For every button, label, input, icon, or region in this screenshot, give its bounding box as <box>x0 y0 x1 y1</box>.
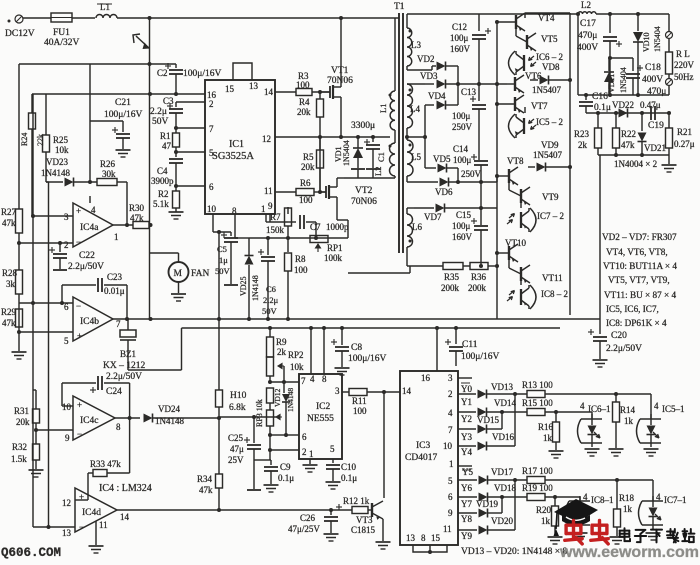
svg-text:−: − <box>76 237 81 247</box>
svg-text:3: 3 <box>448 373 453 383</box>
svg-text:1N5404: 1N5404 <box>653 26 662 52</box>
label C19 <box>648 121 664 131</box>
svg-text:1k: 1k <box>543 433 553 443</box>
wire VT1 source down to primary row <box>340 101 342 137</box>
svg-text:IC2: IC2 <box>316 402 331 412</box>
svg-text:13: 13 <box>406 533 416 543</box>
capacitor C6 2.2u 50V <box>258 238 275 319</box>
label L3 <box>411 40 421 50</box>
resistor R18 1k <box>610 480 625 544</box>
svg-text:IC5, IC6, IC7,: IC5, IC6, IC7, <box>606 304 659 314</box>
svg-text:R11: R11 <box>352 396 367 406</box>
svg-text:100μ: 100μ <box>453 155 472 165</box>
svg-text:2: 2 <box>64 240 69 250</box>
label IC2 NE555 <box>307 402 334 424</box>
supply notch to IC1 pins 15 13 <box>233 63 252 80</box>
watermark site glyphs dian zi xia zai zhan <box>620 528 695 542</box>
label C13 100u 250V <box>452 87 477 132</box>
wire pin1 down, pin9 down <box>266 214 270 222</box>
svg-text:C9: C9 <box>280 462 291 472</box>
diode VD7 <box>414 204 497 213</box>
label RP1 100k <box>324 243 343 263</box>
svg-text:DC12V: DC12V <box>5 29 35 39</box>
svg-text:14: 14 <box>402 386 412 396</box>
svg-text:VD9: VD9 <box>541 140 559 150</box>
label VD10 1N5404 vertical <box>642 26 662 52</box>
svg-text:VT8: VT8 <box>507 156 524 166</box>
svg-text:9: 9 <box>65 433 70 443</box>
label C11 100u/16V <box>461 340 499 362</box>
label VD6 <box>435 187 453 197</box>
label VD19 <box>476 499 498 509</box>
resistor R8 100 <box>285 238 292 319</box>
svg-text:6: 6 <box>448 492 453 502</box>
wire pin2 diode VD13 <box>458 390 527 399</box>
svg-text:1N5407: 1N5407 <box>533 150 562 160</box>
load RL 220V 50Hz <box>666 39 673 78</box>
svg-text:1N4148: 1N4148 <box>41 168 70 178</box>
svg-text:10k: 10k <box>55 145 69 155</box>
svg-text:5: 5 <box>64 336 69 346</box>
svg-text:−: − <box>76 301 81 311</box>
label VD3 <box>420 71 438 81</box>
capacitor C16 0.1u <box>579 95 593 113</box>
svg-text:L2: L2 <box>581 0 591 10</box>
wire pin10 diode VD16 <box>458 394 515 451</box>
label R27 47k <box>1 207 17 228</box>
label VT9 <box>542 192 559 202</box>
svg-text:400V: 400V <box>642 75 663 85</box>
wire L2 to output terminal <box>596 12 669 31</box>
svg-text:H10: H10 <box>230 391 247 401</box>
svg-text:1N5404: 1N5404 <box>619 67 628 93</box>
diode VD9 <box>528 163 570 172</box>
svg-text:C16: C16 <box>592 92 608 102</box>
svg-text:20k: 20k <box>301 162 315 172</box>
label R4 20k <box>297 97 311 117</box>
capacitor C14 100u 250V <box>471 154 488 182</box>
svg-text:+: + <box>77 331 82 341</box>
label VD21 <box>644 143 666 153</box>
diode VD1 1N5404 vertical <box>351 137 365 169</box>
svg-text:1: 1 <box>449 459 454 469</box>
svg-text:R9: R9 <box>276 337 287 347</box>
label VT6 <box>525 71 542 81</box>
wire pin11 diode VD20 <box>458 480 515 535</box>
svg-text:C8: C8 <box>351 343 362 353</box>
optocoupler IC5-2 <box>509 107 537 138</box>
capacitor C13 100u 250V <box>470 84 486 160</box>
label RL 220V 50Hz <box>674 49 695 82</box>
wire pin2 row from x19 <box>17 241 73 245</box>
vertical x219 middle <box>218 232 220 390</box>
label R26 30k <box>100 159 116 179</box>
svg-text:22k: 22k <box>36 134 45 146</box>
svg-text:Y8: Y8 <box>461 514 472 524</box>
svg-text:R33 47k: R33 47k <box>90 459 121 469</box>
svg-text:−: − <box>79 522 84 532</box>
IC2 pin numbers <box>301 374 340 459</box>
label R33 47k <box>90 459 121 469</box>
svg-text:R24: R24 <box>20 133 29 146</box>
svg-text:50V: 50V <box>215 266 231 276</box>
svg-text:0.1μ: 0.1μ <box>594 103 611 113</box>
svg-text:+: + <box>79 492 84 502</box>
svg-text:R23: R23 <box>574 129 590 139</box>
svg-text:3300μ: 3300μ <box>351 121 375 131</box>
svg-text:16: 16 <box>421 373 431 383</box>
label 3300u <box>351 121 375 131</box>
svg-text:47k: 47k <box>2 218 16 228</box>
wire pin10 loop with C24 <box>62 383 96 406</box>
svg-text:Y9: Y9 <box>461 531 472 541</box>
wire pin10 down to C5 row <box>213 214 231 234</box>
label C18 400V 470u <box>642 63 666 97</box>
svg-text:C12: C12 <box>452 22 467 32</box>
label C6 2.2u 50V <box>262 284 279 316</box>
svg-text:50V: 50V <box>152 117 169 127</box>
svg-text:FAN: FAN <box>191 269 209 279</box>
input terminal DC12V <box>8 15 24 23</box>
svg-text:200k: 200k <box>468 283 487 293</box>
ground under R2 <box>169 212 184 219</box>
svg-text:IC4d: IC4d <box>82 508 101 518</box>
IC IC1 SG3525A box <box>205 80 275 214</box>
label C15 100u 160V <box>452 210 473 242</box>
IC3 bottom pins to ground wire <box>413 545 447 554</box>
wire pin9 row <box>34 428 73 432</box>
IC4d ground pin 11 <box>89 521 104 553</box>
svg-text:C13: C13 <box>461 87 477 97</box>
label VD5 <box>433 154 451 164</box>
svg-text:IC6 – 2: IC6 – 2 <box>536 52 563 62</box>
capacitor C21 100u/16V branch <box>90 121 131 157</box>
svg-text:C10: C10 <box>341 462 357 472</box>
svg-text:C11: C11 <box>462 340 478 350</box>
svg-text:RP2: RP2 <box>288 350 304 360</box>
label VT8 <box>507 156 524 166</box>
wire pin5 row <box>17 330 73 334</box>
resistor R2 5.1k <box>173 191 180 212</box>
collector wires top <box>525 13 570 18</box>
svg-text:8: 8 <box>421 533 426 543</box>
svg-text:50Hz: 50Hz <box>674 72 694 82</box>
label R8 100 <box>294 254 308 275</box>
VT3 emitter ground <box>376 519 391 549</box>
label C14 100u 250V <box>453 144 482 179</box>
svg-text:1k: 1k <box>541 516 551 526</box>
svg-text:IC6–1: IC6–1 <box>588 404 611 414</box>
wire RP3 wiper row y417 <box>219 415 276 419</box>
svg-text:R2: R2 <box>158 189 169 199</box>
stub pin5 <box>174 150 205 154</box>
label C21 100u/16V <box>104 98 142 120</box>
svg-text:VD22: VD22 <box>612 100 634 110</box>
svg-text:VD4: VD4 <box>428 91 446 101</box>
svg-text:C26: C26 <box>300 513 316 523</box>
label R12 1k <box>343 496 370 506</box>
svg-text:+: + <box>77 400 82 410</box>
label IC7-2 <box>537 211 564 221</box>
wire C25 row to pins <box>254 459 270 461</box>
svg-text:47k: 47k <box>130 213 144 223</box>
svg-text:1N4148: 1N4148 <box>251 275 260 301</box>
label R18 1k <box>619 493 635 514</box>
svg-text:VD24: VD24 <box>158 404 180 414</box>
svg-text:VD13 – VD20: 1N4148 × 8: VD13 – VD20: 1N4148 × 8 <box>461 547 568 557</box>
label IC8-2 <box>541 289 568 299</box>
svg-text:www.eeworm.com: www.eeworm.com <box>559 544 699 560</box>
svg-text:10: 10 <box>443 441 453 451</box>
svg-text:1N4148: 1N4148 <box>286 388 295 412</box>
svg-text:−: − <box>77 429 82 439</box>
svg-text:220V: 220V <box>674 60 695 70</box>
label VD18 <box>494 483 516 493</box>
svg-text:VD16: VD16 <box>492 432 514 442</box>
resistor R9 2k <box>267 328 274 357</box>
svg-text:100μ/16V: 100μ/16V <box>104 110 142 120</box>
svg-text:R20: R20 <box>536 505 552 515</box>
wire pin8 down <box>235 214 249 238</box>
svg-text:10k: 10k <box>290 362 304 372</box>
svg-text:T1: T1 <box>394 2 405 12</box>
label R13 100 <box>522 380 553 390</box>
label VD15 <box>477 415 499 425</box>
svg-text:R31: R31 <box>14 406 29 416</box>
svg-text:C18: C18 <box>645 63 661 73</box>
svg-text:2.2μ/50V: 2.2μ/50V <box>68 262 104 272</box>
label L2 primary <box>373 167 383 176</box>
svg-text:3: 3 <box>335 386 340 396</box>
svg-text:5: 5 <box>330 444 335 454</box>
svg-text:70N06: 70N06 <box>327 76 353 86</box>
wire RP3 bottom to pins <box>268 426 299 460</box>
capacitor C26 47u/25V <box>324 504 343 541</box>
label R25 10k <box>53 135 69 155</box>
svg-text:C14: C14 <box>453 144 469 154</box>
transistor VT11 <box>509 256 530 283</box>
label 4 IC6-1 <box>580 401 611 414</box>
capacitor C24 2.2u/50V <box>90 376 132 420</box>
svg-text:VD3: VD3 <box>420 71 438 81</box>
wire IC4d output row long <box>117 508 352 512</box>
watermark url text <box>559 544 699 561</box>
svg-text:VT5, VT7, VT9,: VT5, VT7, VT9, <box>608 275 670 285</box>
resistor R27 47k <box>16 209 23 270</box>
svg-text:250V: 250V <box>452 122 473 132</box>
svg-text:100: 100 <box>296 80 310 90</box>
label R29 47k <box>1 307 17 328</box>
svg-text:VT7: VT7 <box>531 101 548 111</box>
label VT7 <box>531 101 548 111</box>
diode VD8 <box>530 76 570 85</box>
svg-text:VD20: VD20 <box>491 516 513 526</box>
potentiometer RP1 100k <box>310 236 328 253</box>
mid bus y95 <box>578 86 669 97</box>
svg-text:C17: C17 <box>580 19 596 29</box>
label IC5-2 <box>536 117 563 127</box>
diode VD24 1N4148 <box>144 414 222 423</box>
label R17 100 <box>522 466 553 476</box>
diode VD11 1N5404 vertical <box>604 56 614 95</box>
svg-text:R22: R22 <box>621 129 636 139</box>
svg-text:4: 4 <box>654 401 659 411</box>
label R5 20k <box>301 152 315 172</box>
capacitor C12 100u 160V <box>472 14 491 84</box>
svg-text:200k: 200k <box>441 283 460 293</box>
T1 secondary L4 coil <box>407 84 425 137</box>
resistor R29 47k <box>16 309 23 327</box>
svg-text:1N5407: 1N5407 <box>532 85 561 95</box>
svg-text:M: M <box>174 269 183 279</box>
label 4 IC7-1 <box>656 492 687 505</box>
resistor R19 100 <box>527 494 580 501</box>
wire pin14 to R3 <box>275 91 296 93</box>
wire input to fuse <box>23 17 51 19</box>
capacitor C7 1000p <box>288 215 316 238</box>
label R19 100 <box>522 483 553 493</box>
svg-text:100μ: 100μ <box>452 111 471 121</box>
svg-text:7: 7 <box>116 319 121 329</box>
resistor R15 100 <box>527 409 592 416</box>
resistor R4 20k <box>317 92 324 192</box>
svg-text:2.2μ/50V: 2.2μ/50V <box>606 344 642 354</box>
svg-text:VD21: VD21 <box>644 143 666 153</box>
svg-text:Y6: Y6 <box>461 483 472 493</box>
svg-text:13: 13 <box>62 528 72 538</box>
svg-text:VT4, VT6, VT8,: VT4, VT6, VT8, <box>606 247 668 257</box>
svg-text:R14: R14 <box>620 405 636 415</box>
label R21 0.27u <box>674 127 695 149</box>
resistor R31 20k <box>33 390 40 430</box>
wire left x578 from L2 <box>576 12 580 95</box>
svg-text:C21: C21 <box>115 98 131 108</box>
svg-text:3k: 3k <box>6 279 16 289</box>
wire top rail to transformer <box>117 16 399 20</box>
svg-text:R7: R7 <box>270 212 281 222</box>
pin3 stub with overbar <box>458 378 472 383</box>
T1 primary L2 coil lower <box>389 130 396 178</box>
label L5 <box>411 152 421 162</box>
wire VT2 drain to primary bottom <box>337 178 344 183</box>
svg-text:R26: R26 <box>100 159 116 169</box>
optocoupler IC6-1 led <box>578 414 603 456</box>
svg-text:0.1μ: 0.1μ <box>341 473 357 483</box>
svg-text:SG3525A: SG3525A <box>212 151 254 162</box>
diode VD6 <box>407 176 497 187</box>
svg-text:VD23: VD23 <box>46 157 68 167</box>
label VD23 1N4148 <box>41 157 70 178</box>
svg-text:R16: R16 <box>538 422 554 432</box>
label C5 1u 50V <box>215 244 231 276</box>
label R16 1k <box>538 422 554 443</box>
svg-text:2: 2 <box>448 389 453 399</box>
svg-text:R L: R L <box>676 49 690 59</box>
IC2 pin1 ground <box>303 459 318 472</box>
svg-text:C1: C1 <box>376 152 386 162</box>
svg-text:5.1k: 5.1k <box>153 199 169 209</box>
T1 secondary L6 coil <box>407 208 414 266</box>
svg-text:11: 11 <box>99 520 108 530</box>
wire IC4a out row <box>113 224 133 226</box>
vertical rail x48 lower <box>46 182 49 527</box>
VCC bus y94 <box>32 92 205 96</box>
op-amp IC4a triangle <box>64 196 119 250</box>
bus y155 and ground <box>598 153 677 172</box>
resistor R20 1k <box>548 497 563 544</box>
svg-text:L5: L5 <box>411 152 421 162</box>
bus wire y319 <box>130 317 600 321</box>
svg-text:2k: 2k <box>578 140 588 150</box>
svg-text:160V: 160V <box>450 44 471 54</box>
svg-text:Y1: Y1 <box>461 397 472 407</box>
wire R26 down to IC4a out <box>125 182 129 227</box>
capacitor C4 3900p <box>169 159 183 191</box>
svg-text:0.47μ: 0.47μ <box>640 100 661 110</box>
wire R17 branch to IC7-1 <box>652 480 654 501</box>
svg-text:R6: R6 <box>300 178 311 188</box>
wire secondary top rail <box>407 13 578 15</box>
label R31 20k <box>14 406 30 427</box>
wire R15 branch down to IC6-1 <box>591 412 593 419</box>
svg-text:1: 1 <box>309 449 314 459</box>
svg-text:2.2μ: 2.2μ <box>150 107 167 117</box>
resistor R11 100 <box>349 389 400 396</box>
label VT3 C1815 <box>351 515 376 535</box>
label T1 <box>394 2 405 12</box>
label VD1 1N5404 vertical <box>334 140 351 166</box>
svg-text:VD8: VD8 <box>542 62 560 72</box>
buzzer BZ1 crystal <box>120 319 136 348</box>
optocoupler IC8-2 <box>507 277 536 309</box>
wire pin12 row to primary center <box>275 135 390 139</box>
svg-text:R21: R21 <box>677 127 692 137</box>
FAN wires and ground <box>150 253 187 301</box>
svg-text:VD10: VD10 <box>642 32 651 52</box>
svg-text:30k: 30k <box>102 169 116 179</box>
label R32 1.5k <box>11 442 27 464</box>
svg-text:IC8 – 2: IC8 – 2 <box>541 289 568 299</box>
svg-text:R17 100: R17 100 <box>522 466 553 476</box>
svg-text:14: 14 <box>120 512 130 522</box>
wire pin13 row <box>33 525 75 529</box>
svg-text:2.2μ/50V: 2.2μ/50V <box>106 372 142 382</box>
label R6 100 <box>299 178 313 205</box>
wire T1 bottom row R35 R36 <box>407 264 483 268</box>
svg-text:RP1: RP1 <box>327 243 343 253</box>
svg-text:47k: 47k <box>199 485 213 495</box>
svg-text:100μ/16V: 100μ/16V <box>348 354 386 364</box>
svg-text:15: 15 <box>225 84 235 94</box>
svg-text:470μ: 470μ <box>578 31 597 41</box>
wire R19 branch to IC8-1 <box>579 497 581 501</box>
label C4 3900p <box>151 166 174 186</box>
label VD11 1N5404 vertical <box>607 67 628 93</box>
label R23 2k <box>574 129 590 150</box>
diode VD4 <box>425 66 458 110</box>
transistor VT1 70N06 mosfet <box>322 83 341 101</box>
svg-text:Y3: Y3 <box>461 432 472 442</box>
transistor VT9 <box>509 179 530 205</box>
resistor R36 200k <box>463 263 497 270</box>
svg-text:R12 1k: R12 1k <box>343 496 370 506</box>
svg-text:11: 11 <box>443 524 452 534</box>
svg-text:R29: R29 <box>1 307 17 317</box>
svg-text:R34: R34 <box>197 474 213 484</box>
svg-text:11: 11 <box>264 186 273 196</box>
svg-text:L2: L2 <box>373 167 383 176</box>
transistor VT4 <box>495 13 525 31</box>
